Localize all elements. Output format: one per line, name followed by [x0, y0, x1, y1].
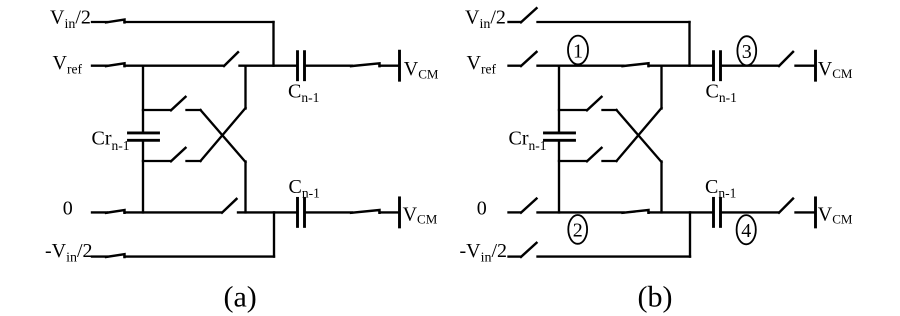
wire right vertical lower (b)	[660, 162, 662, 213]
switch (closed) on V_in/2 input (a)	[92, 21, 107, 23]
wire 0 rail right (b)	[649, 211, 713, 213]
switch (open) on 0 rail (a)	[222, 199, 237, 213]
switch (open) on V_ref input (b)	[509, 65, 521, 67]
wire cap to switch bottom (a)	[306, 211, 353, 213]
switch (closed) on V_ref rail (b)	[623, 63, 649, 66]
wire upper inner stub right (b)	[603, 109, 617, 111]
wire V_in/2 vertical drop (a)	[272, 22, 274, 66]
wire V_ref rail left (b)	[538, 65, 624, 67]
switch (open) lower inner blade (a)	[171, 148, 186, 162]
capacitor Cr_n-1 (a)	[129, 131, 159, 134]
wire 0 rail left (a)	[125, 211, 222, 213]
wire left vertical upper (b)	[558, 66, 560, 132]
switch (closed) on 0 input (a)	[92, 211, 107, 213]
capacitor C_n-1 top (a)	[296, 52, 299, 80]
switch (closed) on V_ref input (a)	[92, 65, 107, 67]
node 4 circle (b)	[737, 215, 756, 244]
wire V_ref rail right (b)	[649, 65, 713, 67]
capacitor C_n-1 bottom (a)	[296, 198, 299, 226]
switch (open) upper inner blade (a)	[171, 97, 186, 111]
switch (open) lower inner blade (b)	[587, 148, 602, 162]
wire switch to V_CM bar top (a)	[380, 65, 399, 67]
wire cap to switch top (b)	[722, 65, 779, 67]
svg-text:2: 2	[573, 220, 583, 242]
capacitor C_n-1 bottom (b)	[712, 198, 715, 226]
switch (open) on V_in/2 input (b)	[509, 21, 521, 23]
switch (open) lower inner stub (b)	[559, 160, 587, 162]
wire stub to V_CM bar top (b)	[796, 65, 815, 67]
switch (open) on 0 input (b)	[509, 211, 521, 213]
svg-text:(a): (a)	[224, 280, 257, 313]
terminal V_CM bar bottom (a)	[398, 198, 401, 227]
terminal V_CM bar bottom (b)	[814, 198, 817, 227]
wire lower inner stub right (b)	[603, 160, 617, 162]
wire switch to V_CM bar bottom (a)	[380, 211, 399, 213]
switch (closed) output bottom (a)	[351, 210, 380, 213]
svg-text:4: 4	[741, 220, 751, 242]
wire right vertical upper (b)	[660, 66, 662, 109]
wire cross diagonal ascending (a)	[201, 108, 246, 161]
svg-text:0: 0	[63, 198, 73, 220]
switch (closed) on -V_in/2 input (a)	[92, 255, 107, 257]
wire stub to V_CM bar bottom (b)	[796, 211, 815, 213]
switch (open) output top (b)	[779, 52, 793, 66]
switch (open) lower inner stub (a)	[143, 160, 171, 162]
wire V_in/2 rail (b)	[538, 21, 690, 23]
wire V_in/2 vertical drop (b)	[688, 22, 690, 66]
wire -V_in/2 vertical rise (a)	[273, 212, 275, 256]
wire -V_in/2 rail (b)	[538, 255, 691, 257]
terminal V_CM bar top (b)	[814, 51, 817, 80]
switch (closed) output top (a)	[351, 63, 380, 66]
switch (open) upper inner stub (b)	[559, 109, 587, 111]
wire cross diagonal descending (b)	[617, 110, 662, 162]
wire right vertical lower (a)	[244, 162, 246, 213]
wire upper inner stub right (a)	[187, 109, 201, 111]
wire cross diagonal descending (a)	[201, 110, 246, 162]
wire cap to switch top (a)	[306, 65, 353, 67]
switch (open) upper inner blade (b)	[587, 97, 602, 111]
wire left vertical lower (b)	[558, 141, 560, 212]
svg-text:(b): (b)	[638, 280, 673, 313]
capacitor C_n-1 top (b)	[712, 52, 715, 80]
capacitor Cr_n-1 (b)	[545, 131, 575, 134]
svg-text:1: 1	[573, 40, 583, 62]
switch (open) output bottom (b)	[779, 199, 793, 213]
switch (open) upper inner stub (a)	[143, 109, 171, 111]
node 1 circle (b)	[568, 36, 588, 65]
wire cap to switch bottom (b)	[722, 211, 779, 213]
svg-text:3: 3	[742, 41, 752, 63]
wire 0 rail left (b)	[538, 211, 624, 213]
wire left vertical upper (a)	[142, 66, 144, 132]
node 3 circle (b)	[737, 36, 756, 65]
wire 0 rail right (a)	[238, 211, 297, 213]
wire V_in/2 rail (a)	[125, 21, 274, 23]
wire V_ref rail right (a)	[240, 65, 297, 67]
wire right vertical upper (a)	[244, 66, 246, 109]
switch (open) on V_ref rail (a)	[224, 52, 238, 66]
wire cross diagonal ascending (b)	[617, 108, 662, 161]
switch (closed) on 0 rail (b)	[623, 210, 649, 213]
wire -V_in/2 vertical rise (b)	[689, 212, 691, 256]
node 2 circle (b)	[568, 215, 587, 244]
wire lower inner stub right (a)	[187, 160, 201, 162]
switch (open) on -V_in/2 input (b)	[509, 255, 521, 257]
svg-text:0: 0	[477, 198, 487, 220]
wire -V_in/2 rail (a)	[125, 255, 275, 257]
terminal V_CM bar top (a)	[398, 51, 401, 80]
wire left vertical lower (a)	[142, 141, 144, 212]
wire V_ref rail left (a)	[125, 65, 224, 67]
